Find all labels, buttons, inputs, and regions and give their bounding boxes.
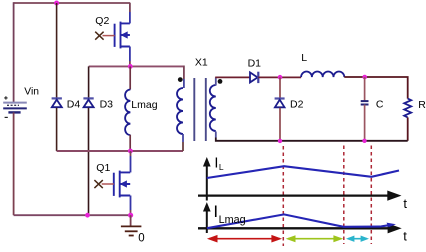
- dashed timing line 1: [282, 146, 284, 246]
- wire primary top from node A: [183, 66, 185, 80]
- svg-text:Lmag: Lmag: [219, 214, 246, 226]
- svg-text:I: I: [214, 156, 218, 172]
- node junction C/bottom: [362, 139, 366, 143]
- wire Q2 gate lead: [103, 35, 115, 37]
- interval arrow red (on time): [207, 235, 282, 243]
- node junction C (D1/D2/L): [278, 75, 283, 80]
- wire C bottom: [364, 105, 366, 141]
- wire node B horizontal (D4 / Lmag / Q1 drain / primary bottom): [57, 150, 183, 152]
- transformer X1 core lines: [194, 78, 206, 141]
- Q2 gate open X mark: [95, 32, 103, 40]
- ground 0 symbol: [121, 226, 141, 235]
- node junction B: [128, 149, 133, 154]
- svg-text:Q1: Q1: [96, 162, 110, 174]
- capacitor C: [361, 101, 369, 104]
- wire D1 cathode to L / node C: [258, 76, 301, 78]
- transformer X1 secondary winding: [210, 85, 216, 131]
- X1 secondary polarity dot: [218, 79, 223, 84]
- dashed timing line 3: [370, 146, 372, 245]
- wire Q2 drain to top rail: [129, 3, 131, 12]
- wire Lmag top: [129, 66, 131, 89]
- ILmag plot y-axis: [204, 203, 210, 233]
- wire Lmag bottom: [129, 135, 131, 151]
- ILmag plot t-axis: [198, 224, 400, 233]
- IL waveform: [207, 166, 399, 178]
- svg-text:D2: D2: [290, 99, 304, 111]
- svg-text:I: I: [213, 202, 218, 221]
- wire L to node D: [344, 77, 407, 99]
- node junction Q1 source / ground: [128, 213, 133, 218]
- wire ground stem: [130, 215, 132, 226]
- wire top rail Vin+: [14, 2, 131, 4]
- wire Q1 source to bottom rail: [130, 196, 132, 211]
- wire node A horizontal (Q2 source / D3 / Lmag / primary): [89, 65, 184, 67]
- interval arrow green (reset time): [286, 235, 344, 242]
- node junction top rail / D4: [54, 1, 59, 6]
- wire bottom rail Vin-: [14, 214, 131, 216]
- wire D4 feed from top rail: [56, 3, 58, 98]
- diode D1: [250, 72, 258, 83]
- diode D4: [52, 98, 62, 107]
- svg-text:L: L: [301, 52, 307, 64]
- wire D3 anode down to bottom rail: [88, 108, 90, 215]
- node junction D2/bottom: [278, 139, 282, 143]
- node junction A: [128, 64, 133, 69]
- svg-text:Lmag: Lmag: [131, 99, 157, 111]
- svg-text:C: C: [376, 99, 384, 111]
- wire C top: [364, 77, 366, 101]
- wire secondary bottom rail: [215, 132, 217, 138]
- wire Q1 drain to node B: [130, 151, 132, 156]
- wire D3 feed from node A: [88, 66, 90, 98]
- wire secondary top to D1: [215, 77, 217, 85]
- wire D4 anode down to node B: [56, 108, 58, 151]
- IL plot t-axis: [198, 191, 400, 200]
- inductor L: [301, 72, 344, 78]
- X1 primary polarity dot: [178, 77, 183, 82]
- wire D2 top: [279, 77, 281, 98]
- inductor Lmag: [125, 90, 130, 136]
- svg-text:Q2: Q2: [95, 15, 109, 27]
- node junction D (L/C/R): [362, 75, 367, 80]
- Q1 gate open X mark: [94, 180, 102, 188]
- svg-text:D1: D1: [248, 58, 262, 70]
- wire R bottom: [407, 117, 409, 140]
- resistor R: [404, 99, 411, 118]
- wire left vertical from top rail to battery: [13, 2, 15, 102]
- transistor Q2 (MOSFET): [115, 22, 130, 49]
- svg-text:t: t: [403, 196, 407, 211]
- svg-text:Vin: Vin: [24, 86, 39, 97]
- svg-text:D3: D3: [100, 99, 114, 111]
- voltage source Vin (battery): [3, 96, 27, 117]
- wire Q2 source to node A: [129, 47, 131, 62]
- diode D2: [275, 99, 285, 108]
- wire Q1 gate lead: [102, 183, 114, 185]
- IL plot y-axis: [204, 158, 210, 200]
- wire D2 anode to bottom rail: [279, 108, 281, 141]
- dashed timing line 2: [343, 146, 345, 245]
- transistor Q1 (MOSFET): [114, 171, 130, 198]
- svg-text:L: L: [219, 162, 224, 172]
- svg-text:D4: D4: [67, 99, 81, 111]
- interval arrow cyan (idle time): [346, 236, 369, 242]
- svg-text:0: 0: [138, 232, 144, 244]
- svg-text:X1: X1: [195, 57, 208, 69]
- wire primary bottom to node B: [182, 134, 184, 142]
- svg-text:R: R: [418, 99, 426, 111]
- wire battery negative to bottom rail: [13, 112, 15, 215]
- svg-text:t: t: [403, 228, 407, 243]
- diode D3: [83, 98, 93, 107]
- ILmag waveform: [207, 214, 392, 228]
- transformer X1 primary winding: [177, 88, 183, 134]
- node junction D3/bottom rail: [85, 213, 90, 218]
